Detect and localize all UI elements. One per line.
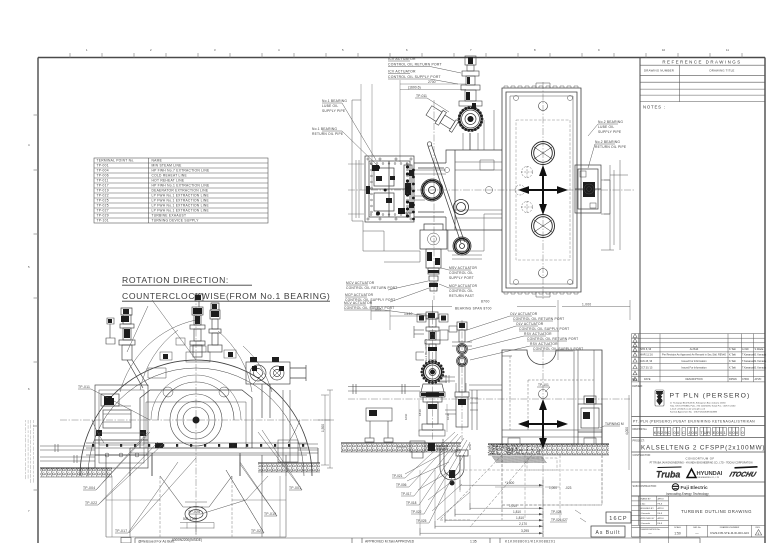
svg-text:LP FWH No.1 EXTRACTION LINE: LP FWH No.1 EXTRACTION LINE xyxy=(152,199,210,203)
ICV control valve gear circle xyxy=(458,106,484,132)
svg-text:KS29-F05-STE-M-ID-003-A03: KS29-F05-STE-M-ID-003-A03 xyxy=(710,531,749,535)
svg-text:1,010: 1,010 xyxy=(509,504,517,508)
svg-text:Truba: Truba xyxy=(656,470,680,480)
ground hatch right xyxy=(258,463,320,472)
svg-text:APR.8: APR.8 xyxy=(658,497,665,500)
svg-text:TP-025: TP-025 xyxy=(97,199,109,203)
svg-text:-023: -023 xyxy=(565,486,572,490)
svg-text:C: C xyxy=(668,430,671,435)
svg-text:ICV ACTUATOR: ICV ACTUATOR xyxy=(388,70,416,74)
svg-text:MCP ACTUATOR: MCP ACTUATOR xyxy=(449,284,478,288)
svg-text:Jl. Trunojoyo Blok M-I/135, Ke: Jl. Trunojoyo Blok M-I/135, Kebayoran Ba… xyxy=(670,402,726,405)
svg-text:NOTES :: NOTES : xyxy=(643,105,666,110)
HP flange circle xyxy=(421,179,443,201)
svg-text:No.1 BEARING: No.1 BEARING xyxy=(312,127,337,131)
valve stack left xyxy=(119,308,148,388)
svg-text:T.Yamazaki: T.Yamazaki xyxy=(640,523,651,525)
small pump unit left xyxy=(410,441,434,458)
svg-text:REV.: REV. xyxy=(632,378,638,381)
foundation inner lines xyxy=(106,476,286,537)
diagonal linkage xyxy=(427,142,464,243)
svg-text:HOT REHEAT LINE: HOT REHEAT LINE xyxy=(152,179,185,183)
svg-text:MIN STEAM LINE: MIN STEAM LINE xyxy=(152,164,183,168)
dense ground hatch right of towers xyxy=(488,444,542,456)
svg-text:10: 10 xyxy=(662,48,666,52)
MSV valve stack (plan) xyxy=(420,224,447,291)
svg-text:1,810: 1,810 xyxy=(516,516,524,520)
svg-text:No.1 BEARING: No.1 BEARING xyxy=(322,99,347,103)
dimension stack bottom xyxy=(505,481,529,533)
svg-text:T.Kawasaki: T.Kawasaki xyxy=(742,360,755,363)
svg-text:RSV ACTUATOR: RSV ACTUATOR xyxy=(524,332,552,336)
sole plate outline (plan) xyxy=(352,100,502,251)
svg-text:500 1,000: 500 1,000 xyxy=(183,517,197,521)
Itochu logo xyxy=(729,472,758,479)
svg-text:4,000: 4,000 xyxy=(625,427,629,435)
svg-text:OCT.30,'15: OCT.30,'15 xyxy=(640,366,653,369)
svg-text:TP-004: TP-004 xyxy=(97,169,109,173)
svg-text:REV.: REV. xyxy=(756,527,761,529)
right side pipe xyxy=(278,390,318,462)
Hyundai logo xyxy=(687,469,696,478)
svg-text:APR.8: APR.8 xyxy=(658,517,665,520)
svg-text:ROTATION DIRECTION:: ROTATION DIRECTION: xyxy=(122,275,229,285)
svg-text:1:35: 1:35 xyxy=(470,540,477,543)
svg-text:K.Taki: K.Taki xyxy=(729,360,736,363)
svg-text:CONTROL OIL: CONTROL OIL xyxy=(449,289,473,293)
svg-text:*1,500: *1,500 xyxy=(505,481,514,485)
svg-text:TURNING M: TURNING M xyxy=(605,422,624,426)
black cluster: MSV valve (plan) xyxy=(427,252,440,265)
No.2 bearing pedestal (plan) xyxy=(575,165,601,213)
LP casing horizontal band xyxy=(86,443,307,476)
svg-text:1:50: 1:50 xyxy=(674,532,681,536)
svg-text:S: S xyxy=(657,430,660,435)
svg-text:SUB CONTRACTOR:: SUB CONTRACTOR: xyxy=(633,485,657,488)
svg-text:TP-017: TP-017 xyxy=(401,492,412,496)
approval table xyxy=(632,496,669,543)
svg-text:S.Yamada: S.Yamada xyxy=(755,354,767,357)
right vertical dimension xyxy=(321,395,329,465)
extra leader diagonals xyxy=(405,452,470,520)
svg-text:MSV ACTUATOR: MSV ACTUATOR xyxy=(449,266,478,270)
svg-text:1050: 1050 xyxy=(468,443,472,450)
svg-text:TP-026,027: TP-026,027 xyxy=(551,518,568,522)
valve stack tall centre-left xyxy=(190,294,205,357)
exhaust casing (side) xyxy=(502,350,602,444)
svg-text:DRAWING NUMBER: DRAWING NUMBER xyxy=(644,69,674,73)
interconnecting pipes xyxy=(439,377,502,430)
svg-text:TERMINAL POINT No.: TERMINAL POINT No. xyxy=(97,159,135,163)
svg-text:BEARING SPAN 8700: BEARING SPAN 8700 xyxy=(455,307,492,311)
svg-text:SUPPLY PIPE: SUPPLY PIPE xyxy=(598,130,622,134)
svg-text:T.Kawasaki: T.Kawasaki xyxy=(742,354,755,357)
svg-text:A.Okh: A.Okh xyxy=(742,348,750,351)
svg-text:TP-011: TP-011 xyxy=(97,179,109,183)
svg-text:OLV ACTUATOR: OLV ACTUATOR xyxy=(516,322,544,326)
dimension texts bottom xyxy=(172,517,202,542)
svg-text:8700: 8700 xyxy=(481,300,490,304)
black cluster: ICV valve gear (plan) xyxy=(466,92,476,122)
16CP box xyxy=(606,512,631,523)
svg-text:APR.8: APR.8 xyxy=(658,507,665,510)
svg-text:LP FWH No.1 EXTRACTION LINE: LP FWH No.1 EXTRACTION LINE xyxy=(152,204,210,208)
svg-text:TP-001: TP-001 xyxy=(97,164,109,168)
svg-text:JAN.15,'16: JAN.15,'16 xyxy=(640,360,653,363)
svg-text:HP FWH No.7 EXTRACTION LINE: HP FWH No.7 EXTRACTION LINE xyxy=(152,169,211,173)
svg-text:TURNING DEVICE SUPPLY: TURNING DEVICE SUPPLY xyxy=(152,219,200,223)
svg-text:DRWN: DRWN xyxy=(729,378,737,381)
title-block column divider xyxy=(639,58,641,538)
terminal point table xyxy=(94,158,268,223)
svg-text:6000W2200(INSIDE): 6000W2200(INSIDE) xyxy=(172,538,202,542)
dome top fittings xyxy=(148,346,229,397)
svg-text:PT. PLN (PERSERO) PUSAT ENJINI: PT. PLN (PERSERO) PUSAT ENJINIRING KETEN… xyxy=(633,420,755,424)
left bearing pedestal and piping xyxy=(95,385,148,468)
centrelines xyxy=(348,306,630,537)
svg-text:MCP ACTUATOR: MCP ACTUATOR xyxy=(345,293,374,297)
sole plate extra xyxy=(356,160,628,262)
black bits: view B stacks xyxy=(104,308,284,405)
svg-text:Issued For Information: Issued For Information xyxy=(681,360,707,363)
pedestal bolt rows xyxy=(370,163,408,216)
No.1 bearing coupling bolt columns (plan) xyxy=(376,165,415,220)
svg-text:CONTROL OIL: CONTROL OIL xyxy=(449,271,473,275)
No.1 bearing labels xyxy=(312,99,347,136)
svg-text:RETURN OIL PIPE: RETURN OIL PIPE xyxy=(312,132,344,136)
svg-text:HP FWH No.1 EXTRACTION LINE: HP FWH No.1 EXTRACTION LINE xyxy=(152,184,211,188)
svg-text:1,000: 1,000 xyxy=(582,303,591,307)
title block row lines xyxy=(632,417,766,538)
title block bottom row xyxy=(632,525,766,537)
svg-text:Telp. 726 6177/6866, Faks. 726: Telp. 726 6177/6866, Faks. 726 1122/6190… xyxy=(670,405,736,408)
svg-text:TP-011: TP-011 xyxy=(78,385,90,389)
right horizontal valve assembly xyxy=(246,362,306,418)
svg-text:TP-029: TP-029 xyxy=(97,214,109,218)
MCV serrated hand-wheel xyxy=(420,360,444,384)
exhaust inner dashes xyxy=(516,120,570,260)
coordinate cross arrows (side) xyxy=(521,402,565,446)
valve stack centre-right xyxy=(208,303,222,352)
svg-text:TP-017: TP-017 xyxy=(97,184,109,188)
svg-text:ICV ACTUATOR: ICV ACTUATOR xyxy=(388,57,416,61)
svg-text:No.1 BEARING ¢: No.1 BEARING ¢ xyxy=(424,338,428,362)
garuda logo xyxy=(656,391,664,405)
svg-text:TP-022: TP-022 xyxy=(85,501,97,505)
extra ground foot plates xyxy=(396,430,596,447)
svg-text:K.Taki: K.Taki xyxy=(729,354,736,357)
actuator labels right of valves xyxy=(510,312,583,351)
black cluster: view C RSV circles xyxy=(458,345,466,365)
border tick marks xyxy=(34,53,743,490)
plan dimension lines xyxy=(348,80,466,214)
svg-text:APPROVED M.Taki APPROVED: APPROVED M.Taki APPROVED xyxy=(365,540,415,543)
svg-text:OWNER:: OWNER: xyxy=(632,384,643,388)
exhaust casing (plan) xyxy=(502,88,581,292)
svg-text:MAR.11,'16: MAR.11,'16 xyxy=(640,354,653,357)
svg-text:TP-006: TP-006 xyxy=(97,174,109,178)
right vertical dimension 4000 xyxy=(628,395,630,470)
foundation outline xyxy=(106,476,286,537)
angled branch pipe xyxy=(425,104,459,133)
svg-text:MCV ACTUATOR: MCV ACTUATOR xyxy=(344,301,373,305)
view B pedestal extra xyxy=(99,406,144,457)
svg-text:3,295: 3,295 xyxy=(521,529,529,533)
svg-text:CLASSIFICATION No.: CLASSIFICATION No. xyxy=(640,528,661,531)
svg-text:1,500: 1,500 xyxy=(321,424,325,432)
svg-text:TP-019: TP-019 xyxy=(97,189,109,193)
dome extra arcs xyxy=(92,330,300,443)
svg-text:LUBE OIL: LUBE OIL xyxy=(598,125,614,129)
svg-text:S.Yamada: S.Yamada xyxy=(755,366,767,369)
As Built box xyxy=(591,526,625,537)
svg-text:TP-017: TP-017 xyxy=(115,529,127,533)
foundation dashed verticals xyxy=(460,455,602,520)
TP labels (front view) xyxy=(78,385,301,533)
svg-text:TP-022: TP-022 xyxy=(97,194,109,198)
svg-text:RETURN PAST: RETURN PAST xyxy=(449,294,474,298)
svg-text:K.Taki: K.Taki xyxy=(729,348,736,351)
svg-text:CONSORTIUM OF: CONSORTIUM OF xyxy=(686,457,715,461)
svg-text:DRAWING TITLE: DRAWING TITLE xyxy=(709,69,734,73)
TP label fan bottom left xyxy=(392,474,427,523)
black cluster: view C MCV wheel xyxy=(424,363,442,381)
svg-text:CONTRACTOR:: CONTRACTOR: xyxy=(633,454,652,457)
svg-text:TP-025: TP-025 xyxy=(416,519,427,523)
LP hood dome arcs xyxy=(80,360,312,476)
bottom dim extension lines xyxy=(420,455,560,536)
svg-text:LUBE OIL: LUBE OIL xyxy=(322,104,338,108)
svg-text:C: C xyxy=(682,430,685,435)
svg-text:Issued For Information: Issued For Information xyxy=(681,366,707,369)
svg-text:11: 11 xyxy=(726,48,729,52)
ICV valve stack (plan) xyxy=(459,56,482,106)
svg-text:TP-011: TP-011 xyxy=(416,94,427,98)
svg-text:DESCRIPTION: DESCRIPTION xyxy=(685,378,702,381)
svg-text:T.Yamazaki: T.Yamazaki xyxy=(640,513,651,515)
svg-text:TP-026: TP-026 xyxy=(188,510,200,514)
svg-text:(1600.6): (1600.6) xyxy=(408,86,421,90)
svg-text:TP-101: TP-101 xyxy=(97,219,109,223)
svg-text:16CP: 16CP xyxy=(609,516,628,522)
svg-text:No.2 BEARING: No.2 BEARING xyxy=(595,140,620,144)
svg-text:TP-004: TP-004 xyxy=(83,486,95,490)
RSV valve stack (side) xyxy=(455,322,469,427)
svg-text:DEAERATOR EXTRACTION LINE: DEAERATOR EXTRACTION LINE xyxy=(152,189,209,193)
svg-text:TP-101: TP-101 xyxy=(538,383,549,387)
svg-text:CONTROL OIL SUPPLY PORT: CONTROL OIL SUPPLY PORT xyxy=(533,347,583,351)
svg-text:Fuji Electric: Fuji Electric xyxy=(681,485,709,491)
svg-text:1810: 1810 xyxy=(418,409,422,416)
right sole plate xyxy=(601,165,614,250)
svg-text:SUPPLY PORT: SUPPLY PORT xyxy=(449,276,474,280)
small fittings in exhaust xyxy=(514,83,573,297)
ground hatch right (side view) xyxy=(488,444,609,455)
svg-text:ITOCHU: ITOCHU xyxy=(729,472,758,479)
black bits: No.1 bearing plan xyxy=(372,165,405,214)
small arrows on dims xyxy=(539,484,543,534)
svg-text:TP-027: TP-027 xyxy=(97,209,109,213)
svg-text:1,000: 1,000 xyxy=(549,486,557,490)
long leader lines crossing xyxy=(96,300,302,533)
ground hatch left (side view) xyxy=(341,443,461,452)
foundation below (side view) xyxy=(440,455,602,527)
PT PLN (PERSERO) owner block xyxy=(655,390,664,406)
rotor concentric circles xyxy=(151,375,241,446)
svg-text:NAME: NAME xyxy=(152,159,163,163)
svg-text:PT TRUBA JAYA ENGINEERING - HY: PT TRUBA JAYA ENGINEERING - HYUNDAI ENGI… xyxy=(650,462,753,465)
feed piping to left xyxy=(40,444,95,463)
view B valve circle cross marks xyxy=(253,368,283,385)
rotation direction note xyxy=(122,275,330,301)
No.2 bearing labels xyxy=(595,120,627,149)
ground hatch left xyxy=(40,468,112,477)
svg-text:REFERENCE DRAWINGS: REFERENCE DRAWINGS xyxy=(662,60,741,65)
svg-text:TP-025: TP-025 xyxy=(97,204,109,208)
rev triangle xyxy=(755,530,761,536)
svg-text:J: J xyxy=(688,430,690,435)
IP flange circles xyxy=(453,200,471,256)
margin note (vertical small print) xyxy=(26,420,34,483)
view C pipe flange ticks xyxy=(446,375,478,410)
svg-text:CHKD: CHKD xyxy=(742,378,749,381)
svg-text:TURBINE EXHAUST: TURBINE EXHAUST xyxy=(152,214,187,218)
valve tower head hardware xyxy=(417,314,457,382)
svg-text:DRAWN BY: DRAWN BY xyxy=(640,497,652,500)
No.1 bearing pedestal (plan) xyxy=(365,156,414,222)
svg-text:OLV ACTUATOR: OLV ACTUATOR xyxy=(510,312,538,316)
svg-text:S.Yamada: S.Yamada xyxy=(755,360,767,363)
Truba logo xyxy=(656,470,680,480)
svg-text:LP FWH No.1 EXTRACTION LINE: LP FWH No.1 EXTRACTION LINE xyxy=(152,194,210,198)
right vertical dim x330 xyxy=(318,390,334,468)
ICV actuator labels xyxy=(388,57,442,79)
svg-text:DRAWING NUMBER: DRAWING NUMBER xyxy=(720,526,740,529)
svg-text:As Built: As Built xyxy=(690,348,699,351)
svg-text:SUPPLY PIPE: SUPPLY PIPE xyxy=(322,109,346,113)
svg-text:ENGINEERING CO., LTD: ENGINEERING CO., LTD xyxy=(698,477,720,479)
svg-text:CONTROL OIL RETURN PORT: CONTROL OIL RETURN PORT xyxy=(388,63,442,67)
svg-text:LP FWH No.1 EXTRACTION LINE: LP FWH No.1 EXTRACTION LINE xyxy=(152,209,210,213)
svg-text:TP-018: TP-018 xyxy=(406,501,417,505)
MSV actuator labels xyxy=(449,266,478,298)
svg-text:TP-006: TP-006 xyxy=(396,483,407,487)
svg-text:Innovating Energy Technology: Innovating Energy Technology xyxy=(666,492,709,496)
svg-text:S.Taki: S.Taki xyxy=(640,503,646,505)
LP casing body xyxy=(130,390,318,476)
bottom revision strip xyxy=(121,538,700,543)
svg-text:TP-021: TP-021 xyxy=(392,474,403,478)
svg-text:TP-027: TP-027 xyxy=(251,529,263,533)
svg-text:1010: 1010 xyxy=(446,413,450,420)
plan view centrelines xyxy=(348,82,635,300)
svg-text:APR.8,'16: APR.8,'16 xyxy=(640,348,652,351)
svg-text:2,170: 2,170 xyxy=(519,522,527,526)
svg-text:K1K0088001/K1K0088201: K1K0088001/K1K0088201 xyxy=(505,540,556,543)
svg-text:CONTROL OIL SUPPLY PORT: CONTROL OIL SUPPLY PORT xyxy=(344,306,394,310)
svg-text:e-mail : pln@pln.co.id, www.pl: e-mail : pln@pln.co.id, www.pln.co.id xyxy=(670,409,706,411)
svg-text:As Built: As Built xyxy=(596,530,621,536)
svg-text:Kontrak Agreement No. : 036.PJ: Kontrak Agreement No. : 036.PJ/041/DIR/2… xyxy=(670,411,717,414)
exhaust inner wall xyxy=(574,350,578,446)
dashed instrument circles xyxy=(515,166,533,213)
svg-text:PROJECT:: PROJECT: xyxy=(633,440,645,443)
crossover pipe to left xyxy=(348,384,420,442)
No.2 bearing pedestal (side) xyxy=(578,396,602,444)
svg-text:2700: 2700 xyxy=(428,80,436,84)
HP-IP casing (plan) xyxy=(414,133,502,230)
svg-text:CONTROL OIL RETURN PORT: CONTROL OIL RETURN PORT xyxy=(527,337,578,341)
svg-text:RETURN OIL PIPE: RETURN OIL PIPE xyxy=(595,145,627,149)
svg-text:@Reissued For As Built.: @Reissued For As Built. xyxy=(138,540,175,543)
centrelines xyxy=(60,295,330,537)
revision table xyxy=(632,334,766,537)
under-floor drain U pipe xyxy=(436,446,468,480)
svg-text:KALSELTENG 2 CFSPP(2x100MW): KALSELTENG 2 CFSPP(2x100MW) xyxy=(641,445,765,452)
TP labels bottom right xyxy=(549,486,572,522)
reference drawings table xyxy=(640,65,765,101)
svg-text:No.2 BEARING: No.2 BEARING xyxy=(598,120,623,124)
MSV/MCV valve stack (side) xyxy=(425,312,440,360)
svg-text:CONTROL OIL RETURN PORT: CONTROL OIL RETURN PORT xyxy=(513,317,564,321)
svg-text:R: R xyxy=(707,430,710,435)
plant coordinate cross arrows xyxy=(521,168,565,212)
svg-text:DRW.NR.No.: DRW.NR.No. xyxy=(633,428,648,431)
svg-text:1,810: 1,810 xyxy=(513,510,521,514)
svg-text:COLD REHEAT LINE: COLD REHEAT LINE xyxy=(152,174,188,178)
exhaust big circles xyxy=(532,142,555,238)
svg-text:CONTROL OIL SUPPLY PORT: CONTROL OIL SUPPLY PORT xyxy=(388,75,441,79)
svg-text:APVD: APVD xyxy=(755,378,762,381)
svg-text:SCALE: SCALE xyxy=(674,526,681,529)
dome surface fittings xyxy=(160,338,236,360)
exhaust funnel oval xyxy=(185,507,207,522)
svg-text:E: E xyxy=(713,430,716,435)
svg-text:1810: 1810 xyxy=(441,438,445,445)
svg-text:TURBINE OUTLINE DRAWING: TURBINE OUTLINE DRAWING xyxy=(681,509,752,514)
bearing span dimension xyxy=(371,300,630,360)
svg-text:Per Revision As Approved As-Re: Per Revision As Approved As-Remark in Se… xyxy=(662,354,727,357)
svg-text:1610: 1610 xyxy=(404,413,408,420)
view C tower extra hardware xyxy=(414,326,472,360)
slope hatch below xyxy=(492,456,547,463)
svg-text:APPROVED BY: APPROVED BY xyxy=(640,517,656,520)
svg-text:PT PLN (PERSERO): PT PLN (PERSERO) xyxy=(670,393,751,400)
svg-text:RSV ACTUATOR: RSV ACTUATOR xyxy=(530,342,558,346)
svg-text:MCV ACTUATOR: MCV ACTUATOR xyxy=(346,281,375,285)
svg-text:CAD No.: CAD No. xyxy=(693,526,702,529)
svg-text:S.Wada: S.Wada xyxy=(755,348,764,351)
svg-text:1330: 1330 xyxy=(404,312,413,316)
svg-text:DESIGNED BY: DESIGNED BY xyxy=(640,508,655,510)
svg-text:CONTROL OIL SUPPLY PORT: CONTROL OIL SUPPLY PORT xyxy=(519,327,569,331)
svg-text:DATE: DATE xyxy=(644,378,651,381)
MCV label above xyxy=(344,301,394,310)
svg-text:K.Taki: K.Taki xyxy=(729,366,736,369)
plan view extra piping xyxy=(414,110,502,218)
black cluster: HP flange (plan) xyxy=(423,181,470,254)
svg-text:COUNTERCLOCKWISE(FROM No.1 BEA: COUNTERCLOCKWISE(FROM No.1 BEARING) xyxy=(122,291,330,301)
svg-text:T.Kawasaki: T.Kawasaki xyxy=(742,366,755,369)
small mast far left xyxy=(106,318,115,344)
